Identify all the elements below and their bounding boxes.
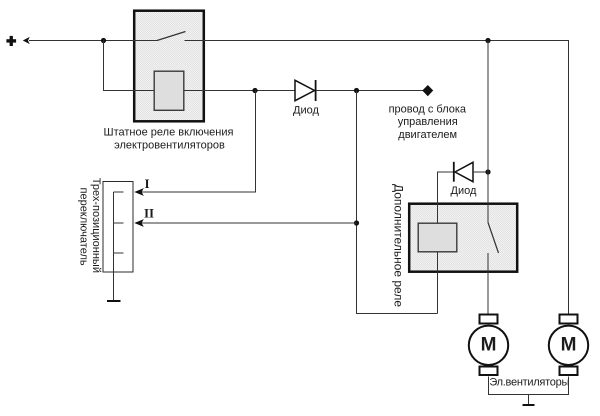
motor M1 top terminal (480, 315, 498, 324)
diode D1 cathode bar (315, 80, 317, 101)
node before diode D1 (252, 88, 257, 93)
motor M1 body (469, 326, 508, 365)
svg-text:двигателем: двигателем (398, 129, 457, 141)
wire: node down (103, 41, 105, 91)
svg-text:провод с блока: провод с блока (389, 103, 467, 115)
motor M2 top terminal (560, 315, 578, 324)
svg-text:Диод: Диод (451, 185, 477, 197)
wire: bracket bottom (489, 394, 569, 396)
svg-text:Диод: Диод (293, 105, 319, 117)
svg-text:переключатель: переключатель (78, 188, 90, 266)
svg-text:управления: управления (398, 116, 458, 128)
relay K1 switch right contact (185, 40, 205, 42)
motor M2 body (549, 326, 588, 365)
wire: right edge down to motor M2 (568, 40, 570, 314)
svg-text:I: I (145, 176, 150, 191)
wire: motor M1 bottom to bracket (488, 377, 490, 396)
wire: to coil left (103, 90, 154, 92)
arrow II (134, 219, 144, 227)
relay K1 box (штатное реле) (134, 11, 204, 122)
coil of relay K1 (154, 71, 184, 110)
motor M2 bottom terminal (560, 367, 578, 376)
switch SA1 box (трех-позиционный переключатель) (103, 182, 133, 273)
diode D2 triangle (455, 162, 473, 181)
wire: coil K2 bottom down (437, 252, 439, 314)
wire: diode D1 to node (317, 90, 424, 92)
wire: plus to relay K1 left (29, 40, 134, 42)
wire: motor M2 bottom to bracket (568, 377, 570, 396)
arrow I (134, 188, 144, 196)
arrow to plus (23, 37, 30, 44)
relay K2 switch blade (488, 223, 499, 254)
diamond terminal (провод с блока управления) (422, 85, 433, 96)
svg-text:II: II (144, 206, 154, 221)
svg-text:М: М (481, 334, 497, 355)
node at II junction (354, 220, 359, 225)
coil of relay K2 (418, 223, 457, 252)
switch SA1 pole (113, 192, 115, 301)
node at x=103.5 top wire (101, 38, 106, 43)
diode D1 triangle (295, 80, 315, 100)
node after diode D1 (354, 88, 359, 93)
switch SA1 contact II stub (114, 222, 124, 224)
ground bar (523, 404, 535, 406)
node at x=488 top wire (485, 38, 490, 43)
switch SA1 contact I stub (114, 191, 124, 193)
wire: corner to diode D2 bar (437, 171, 454, 173)
wire: node down to II junction and bottom corner (356, 91, 358, 314)
wire: switch K2 bottom contact to motor M1 (487, 253, 489, 314)
svg-text:Трех-позиционный: Трех-позиционный (90, 178, 102, 273)
ground stub (528, 395, 530, 405)
wire: relay K1 right to corner (204, 40, 569, 42)
plus terminal (6, 36, 16, 46)
svg-text:Эл.вентиляторы: Эл.вентиляторы (489, 377, 569, 389)
relay K1 switch blade (157, 32, 186, 41)
wire: coil K1 right to diode D1 (184, 90, 295, 92)
svg-text:электровентиляторов: электровентиляторов (114, 140, 225, 152)
wire: node x488 down to switch K2 top contact (487, 41, 489, 223)
wire: diode D2 to node (473, 171, 488, 173)
node at diode D2 right (485, 169, 490, 174)
diode D2 cathode bar (453, 162, 455, 182)
wire: diode D2 anode corner to coil K2 top (437, 172, 439, 223)
wire: bottom to coil K2 (356, 313, 438, 315)
motor M1 bottom terminal (480, 367, 498, 376)
svg-text:М: М (561, 334, 577, 355)
relay K1 switch left contact (134, 40, 157, 42)
wire I: horizontal to switch (141, 191, 256, 193)
ground of switch SA1 (107, 300, 121, 302)
switch SA1 contact 0 stub (114, 252, 124, 254)
svg-text:Штатное реле включения: Штатное реле включения (104, 127, 234, 139)
wire I: vertical from node (255, 91, 257, 193)
svg-text:Дополнительное реле: Дополнительное реле (392, 184, 406, 307)
wire II: horizontal from switch to node (141, 222, 357, 224)
relay K2 box (дополнительное реле) (409, 204, 517, 272)
